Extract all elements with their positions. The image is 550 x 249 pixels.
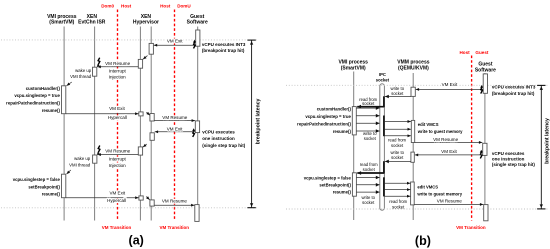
svg-text:Dom0: Dom0 xyxy=(101,4,114,9)
svg-text:Interrupt: Interrupt xyxy=(109,68,127,73)
svg-text:read from: read from xyxy=(389,199,407,204)
svg-text:VM Resume: VM Resume xyxy=(162,115,187,120)
svg-text:wake up: wake up xyxy=(75,68,92,73)
activation VMM B3 (b) xyxy=(411,152,414,162)
activation VMI V2 (b) xyxy=(352,173,356,196)
header VMM process (b) xyxy=(397,60,429,72)
label vCPU executes one instruction (b) xyxy=(492,151,536,167)
arrow VM Resume 2 (a) xyxy=(154,119,195,122)
red dashed line Dom0/Host (a) xyxy=(117,10,119,221)
thick socket queue r1 (b) xyxy=(383,116,385,137)
latency arrow (a) xyxy=(247,40,255,208)
lifeline XEN EvtChn ISR (a) xyxy=(94,27,96,221)
svg-text:(SmartVM): (SmartVM) xyxy=(49,20,74,26)
svg-text:breakpoint latency: breakpoint latency xyxy=(256,98,262,144)
label write to socket VMI 2 (b) xyxy=(361,195,375,205)
thick read arrow into V1 (b) xyxy=(357,105,384,109)
svg-text:VM Exit: VM Exit xyxy=(167,126,183,131)
svg-text:EvtChn ISR: EvtChn ISR xyxy=(78,20,106,26)
activation evtchn E1 (a) xyxy=(93,67,97,76)
svg-text:VM Transition: VM Transition xyxy=(102,225,132,230)
arrow VM Resume 3 (a) xyxy=(98,153,139,156)
bolt guest G2 (a) xyxy=(192,128,195,137)
svg-text:read from: read from xyxy=(388,138,406,143)
arrow VM Exit 1 (a) xyxy=(154,44,196,47)
arrow VM Exit 2 (a) xyxy=(155,130,196,133)
label vCPU executes INT3 (b) xyxy=(492,85,536,96)
svg-text:(b): (b) xyxy=(415,234,431,248)
svg-text:write to guest memory: write to guest memory xyxy=(416,192,462,197)
svg-text:resume(): resume() xyxy=(42,192,61,197)
svg-text:one instruction: one instruction xyxy=(202,136,235,141)
red dashed line Host/Guest (b) xyxy=(471,56,473,221)
svg-text:socket: socket xyxy=(391,155,404,160)
arrow write6 VMI (b) xyxy=(356,183,379,187)
svg-text:wake up: wake up xyxy=(74,156,91,161)
svg-text:edit VMCS: edit VMCS xyxy=(417,185,438,190)
arrow VM Exit 1 (b) xyxy=(416,88,484,91)
svg-text:socket: socket xyxy=(362,101,375,106)
svg-text:VM Resume: VM Resume xyxy=(105,61,130,66)
svg-text:vcpu.singlestep = false: vcpu.singlestep = false xyxy=(13,177,61,182)
thick socket drop r2 (b) xyxy=(383,161,385,173)
svg-text:Guest: Guest xyxy=(475,50,488,55)
label vCPU executes INT3 (a) xyxy=(202,42,246,53)
activation hypervisor H2 (a) xyxy=(138,59,142,68)
arrow VM Resume 1 (b) xyxy=(415,141,483,144)
svg-text:Software: Software xyxy=(475,68,496,74)
header Guest Software (a) xyxy=(187,14,208,26)
svg-text:(SmartVM): (SmartVM) xyxy=(341,66,366,72)
label write to socket VMI 1 (b) xyxy=(363,131,377,141)
svg-text:Host: Host xyxy=(160,4,171,9)
svg-text:(breakpoint trap hit): (breakpoint trap hit) xyxy=(492,91,535,96)
activation VMI V1 (a) xyxy=(62,86,66,114)
header Guest Software (b) xyxy=(475,62,496,74)
svg-text:breakpoint latency: breakpoint latency xyxy=(544,118,550,164)
arrow Hypercall 2 (a) xyxy=(66,196,139,199)
svg-text:Hypercall: Hypercall xyxy=(107,198,126,203)
arrow write5 VMI (b) xyxy=(356,176,379,180)
activation hypervisor H1 (a) xyxy=(149,43,153,54)
label read from socket VMI 1 (b) xyxy=(359,97,377,106)
label edit VMCS 1 (b) xyxy=(417,122,463,134)
activation hypervisor H4 (a) xyxy=(150,114,154,122)
arrow write to socket VMM 2 (b) xyxy=(385,160,411,164)
svg-text:VM Exit: VM Exit xyxy=(442,82,458,87)
dotted end line (a) xyxy=(1,207,258,209)
activation hypervisor H7 (a) xyxy=(139,196,143,200)
lifeline VMI process (a) xyxy=(63,27,65,221)
activation hypervisor H6 (a) xyxy=(138,147,142,155)
thick read arrow into V2 (b) xyxy=(357,171,384,175)
bolt evtchn 1 (a) xyxy=(97,58,100,67)
svg-text:write to guest memory: write to guest memory xyxy=(417,129,463,134)
arrow VM Resume 1 (a) xyxy=(97,65,138,68)
lifeline Guest Software (b) xyxy=(484,73,486,221)
label write to socket VMM 2 (b) xyxy=(390,150,404,160)
svg-text:setBreakpoint(): setBreakpoint() xyxy=(28,185,60,190)
arrow write7 VMI (b) xyxy=(356,190,379,194)
arrow write to socket VMM 1 (b) xyxy=(385,95,411,99)
activation guest G1 (a) xyxy=(196,30,200,46)
arrow read6 VMM (b) xyxy=(384,195,410,198)
svg-text:(QEMU/KVM): (QEMU/KVM) xyxy=(398,66,429,72)
svg-text:socket: socket xyxy=(391,91,404,96)
label Interrupt Injection 2 (a) xyxy=(109,157,127,168)
arrow VM Resume 4 (a) xyxy=(154,204,194,207)
svg-text:VM Resume: VM Resume xyxy=(437,198,462,203)
svg-text:vCPU executes INT3: vCPU executes INT3 xyxy=(202,42,246,47)
header VMI process (b) xyxy=(338,60,368,72)
activation hypervisor H5 (a) xyxy=(150,133,154,141)
svg-text:Interrupt: Interrupt xyxy=(109,157,127,162)
bolt guest G1 (b) xyxy=(480,85,483,94)
header IPC socket (b) xyxy=(376,72,390,82)
label edit VMCS 2 (b) xyxy=(416,185,462,197)
arrow read5 VMM (b) xyxy=(384,188,410,191)
label wake up VMI thread 2 (a) xyxy=(69,156,91,167)
IPC socket pill (b) xyxy=(380,84,385,210)
arrow read4 VMM (b) xyxy=(384,182,410,185)
arrow read2 VMM (b) xyxy=(384,128,411,131)
lifeline XEN Hypervisor right (a) xyxy=(150,27,152,221)
svg-text:customHandler(): customHandler() xyxy=(26,86,61,91)
thick socket drop r1 (b) xyxy=(383,96,385,107)
arrow VM Resume 2 (b) xyxy=(414,203,483,206)
label read from socket VMM 1 (b) xyxy=(388,138,406,148)
stub into V1 (a) xyxy=(67,82,72,86)
arrow Hypercall 1 (a) xyxy=(66,112,139,115)
svg-text:Injection: Injection xyxy=(109,75,126,80)
thick socket queue r2 (b) xyxy=(383,177,385,196)
svg-text:Host: Host xyxy=(121,4,132,9)
svg-text:vCPU executes INT3: vCPU executes INT3 xyxy=(492,85,536,90)
activation guest G1 (b) xyxy=(483,74,487,93)
svg-text:VMI thread: VMI thread xyxy=(69,163,91,168)
header XEN EvtChn ISR (a) xyxy=(78,14,106,26)
svg-text:resume(): resume() xyxy=(333,190,352,195)
activation VMM B1 (b) xyxy=(411,87,415,96)
svg-text:(single step trap hit): (single step trap hit) xyxy=(492,162,536,167)
label read from socket VMI 2 (b) xyxy=(360,162,378,172)
stub into V2 (a) xyxy=(67,170,71,174)
svg-text:VM Exit: VM Exit xyxy=(441,149,457,154)
arrow read1 VMM (b) xyxy=(384,120,411,123)
red dashed line Host/DomU (a) xyxy=(174,10,176,221)
svg-text:VM Exit: VM Exit xyxy=(109,106,125,111)
svg-text:one instruction: one instruction xyxy=(492,156,525,161)
stub into H4 (a) xyxy=(146,112,150,115)
svg-text:Hypercall: Hypercall xyxy=(108,115,127,120)
lifeline XEN Hypervisor left (a) xyxy=(139,27,141,221)
svg-text:Software: Software xyxy=(187,20,208,26)
activation VMI V1 (b) xyxy=(352,107,356,135)
label wake up VMI thread 1 (a) xyxy=(70,68,92,79)
label write to socket VMM 1 (b) xyxy=(391,86,405,96)
activation VMI V2 (a) xyxy=(62,174,66,198)
svg-text:vcpu.singlestep = true: vcpu.singlestep = true xyxy=(14,93,60,98)
svg-text:VM Exit: VM Exit xyxy=(167,39,183,44)
svg-text:VM Resume: VM Resume xyxy=(162,199,187,204)
activation VMM B2 (b) xyxy=(411,120,414,142)
svg-text:socket: socket xyxy=(363,167,376,172)
svg-text:setBreakpoint(): setBreakpoint() xyxy=(319,182,351,187)
svg-text:socket: socket xyxy=(376,77,390,82)
dotted end line (b) xyxy=(286,208,548,210)
label Interrupt Injection 1 (a) xyxy=(109,68,127,79)
lifeline VMM process (b) xyxy=(412,73,414,220)
stub into H6 (a) xyxy=(143,144,147,147)
latency arrow (b) xyxy=(537,85,545,209)
activation guest G3 (b) xyxy=(484,205,488,221)
activation evtchn E2 (a) xyxy=(93,155,97,163)
svg-text:(single step trap hit): (single step trap hit) xyxy=(202,143,246,148)
svg-text:VM Resume: VM Resume xyxy=(433,137,458,142)
svg-text:resume(): resume() xyxy=(333,129,352,134)
svg-text:edit VMCS: edit VMCS xyxy=(418,122,439,127)
lifeline Guest Software (a) xyxy=(197,27,199,221)
svg-text:(a): (a) xyxy=(129,234,144,248)
svg-text:VM Resume: VM Resume xyxy=(105,148,130,153)
arrow read3 VMM (b) xyxy=(384,134,411,137)
svg-text:socket: socket xyxy=(391,143,404,148)
stub into H2 (a) xyxy=(143,56,148,60)
arrow write2 VMI (b) xyxy=(356,114,379,118)
activation hypervisor H3 (a) xyxy=(139,112,143,116)
activation hypervisor H8 (a) xyxy=(150,200,154,206)
activation VMM B4 (b) xyxy=(411,182,415,205)
svg-text:repairPatchedInstruction(): repairPatchedInstruction() xyxy=(6,101,60,106)
activation guest G2 (b) xyxy=(483,143,487,155)
bolt evtchn 2 (a) xyxy=(97,146,100,155)
svg-text:DomU: DomU xyxy=(177,4,191,9)
header XEN Hypervisor (a) xyxy=(133,14,159,26)
arrow write3 VMI (b) xyxy=(356,122,379,126)
arrow write1 VMI (b) xyxy=(356,106,379,110)
header VMI process (a) xyxy=(47,14,77,26)
svg-text:socket: socket xyxy=(392,204,405,209)
label read from socket VMM 2 (b) xyxy=(389,199,407,209)
svg-text:(breakpoint trap hit): (breakpoint trap hit) xyxy=(202,48,245,53)
svg-text:Host: Host xyxy=(459,50,470,55)
svg-text:vcpu.singlestep = false: vcpu.singlestep = false xyxy=(304,175,352,180)
bolt guest G2 (b) xyxy=(480,150,483,159)
svg-text:socket: socket xyxy=(362,200,375,205)
svg-text:customHandler(): customHandler() xyxy=(317,107,352,112)
stub into H8 (a) xyxy=(146,196,149,199)
svg-text:socket: socket xyxy=(364,136,377,141)
svg-text:repairPatchedInstruction(): repairPatchedInstruction() xyxy=(297,121,351,126)
dotted start line (b) xyxy=(286,84,548,86)
activation guest G3 (a) xyxy=(195,205,199,222)
svg-text:vcpu.singlestep = true: vcpu.singlestep = true xyxy=(305,114,351,119)
svg-text:VM Exit: VM Exit xyxy=(109,190,125,195)
svg-text:resume(): resume() xyxy=(42,108,61,113)
svg-text:VM Transition: VM Transition xyxy=(456,225,486,230)
svg-text:Injection: Injection xyxy=(109,163,126,168)
svg-text:Hypervisor: Hypervisor xyxy=(133,20,159,26)
svg-text:VM Transition: VM Transition xyxy=(160,225,190,230)
arrow VM Exit 2 (b) xyxy=(415,153,483,156)
activation guest G2 (a) xyxy=(195,121,199,133)
svg-text:write to: write to xyxy=(390,150,404,155)
svg-text:vCPU executes: vCPU executes xyxy=(492,151,525,156)
bolt guest G1 (a) xyxy=(193,40,196,49)
svg-text:vCPU executes: vCPU executes xyxy=(202,129,235,134)
lifeline VMI process (b) xyxy=(353,72,355,221)
label vCPU executes one instruction (a) xyxy=(202,129,246,148)
arrow write4 VMI (b) xyxy=(356,129,379,133)
svg-text:VMI thread: VMI thread xyxy=(70,74,92,79)
dotted start line (a) xyxy=(1,39,258,41)
